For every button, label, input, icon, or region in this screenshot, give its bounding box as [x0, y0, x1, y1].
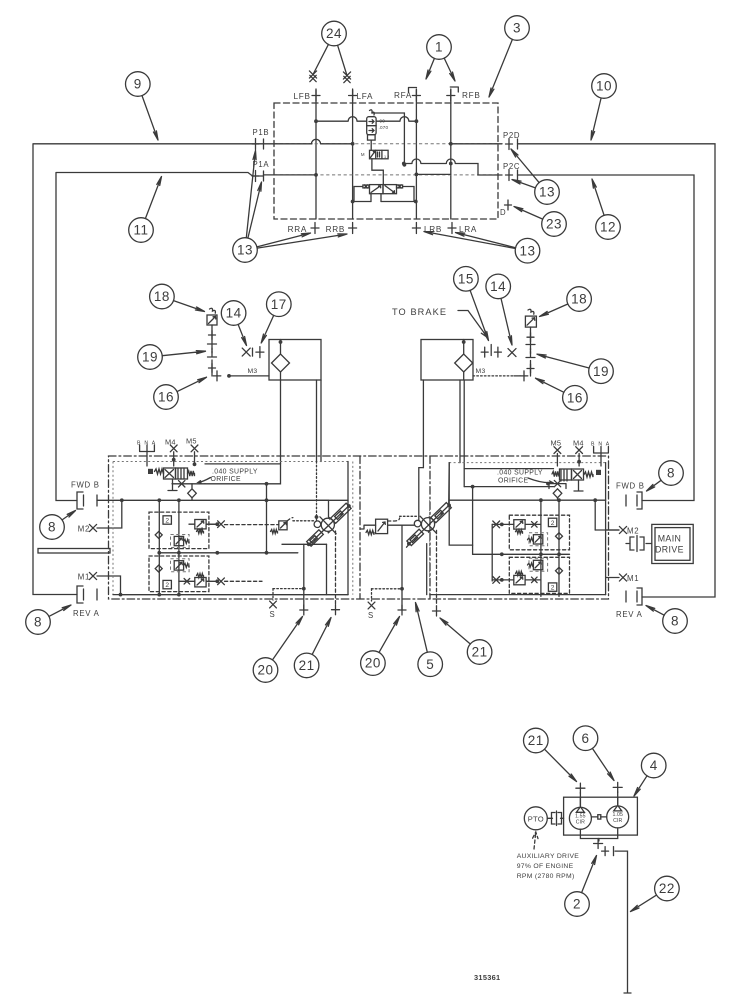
manifold section line LF [315, 89, 317, 219]
left mid valve lower [174, 561, 183, 570]
main drive coupling [626, 543, 652, 545]
left REV A port [77, 586, 83, 603]
left box dotted right edge [352, 462, 354, 595]
callout balloon 17 [267, 292, 292, 317]
manifold section line RFA [415, 89, 417, 219]
leader 9 [142, 96, 158, 140]
svg-text:19: 19 [142, 350, 158, 365]
wire PV1 to shift valve [372, 159, 383, 185]
left sub box lower (dashed) [149, 556, 209, 592]
right pump inner box [449, 463, 472, 545]
leader 13R bot b [456, 233, 516, 248]
svg-text:P1B: P1B [253, 128, 270, 137]
callout balloon 9 [126, 72, 151, 97]
svg-text:315361: 315361 [474, 973, 500, 982]
leader 1b [444, 58, 455, 81]
svg-text:18: 18 [154, 289, 170, 304]
right FWD B port [637, 492, 642, 509]
svg-text:RFA: RFA [394, 91, 412, 100]
right gauge stem [530, 327, 532, 344]
right pump SW arm stub [407, 543, 411, 547]
leader 13R top a [511, 149, 539, 183]
manifold section line LFA [352, 89, 354, 219]
wire P1B to left REV [33, 144, 264, 595]
svg-text:ORIFICE: ORIFICE [498, 477, 528, 484]
relief valve drain box [368, 135, 376, 140]
wire P2C to right FWD [518, 175, 695, 501]
right charge valve assembly [552, 471, 559, 476]
port LRA [448, 223, 456, 234]
svg-text:REV A: REV A [73, 609, 100, 618]
right filter wires down [459, 380, 461, 463]
right S suction line [372, 588, 403, 590]
aux pump link [591, 816, 606, 818]
callout balloon 13 [515, 238, 540, 263]
callout balloon 4 [641, 753, 666, 778]
wire P2D to right REV [518, 144, 716, 597]
svg-text:10: 10 [596, 79, 612, 94]
svg-text:2: 2 [551, 520, 555, 527]
right supply orifice tap [548, 484, 566, 489]
pilot valve PV1 (3 position) [370, 150, 389, 159]
leader 4 aux [634, 776, 647, 796]
leader 16L [177, 377, 206, 391]
svg-text:11: 11 [133, 223, 148, 238]
leader 18R [540, 304, 568, 317]
right relief lower [514, 575, 525, 584]
leader 5 [416, 603, 428, 653]
svg-text:FWD B: FWD B [71, 481, 100, 490]
housing divider right [429, 456, 431, 599]
callout balloon 15 [454, 267, 479, 292]
svg-text:6: 6 [581, 731, 589, 746]
leader 24b [338, 45, 347, 75]
left sub box upper (dashed) [149, 512, 209, 549]
svg-text:TO BRAKE: TO BRAKE [392, 307, 447, 317]
svg-text:9: 9 [134, 77, 142, 92]
leader 8 REV left [49, 605, 71, 616]
right pump pilot link [388, 524, 414, 526]
control manifold outline (dashed) [274, 103, 498, 219]
callout balloon 22 [655, 876, 680, 901]
svg-text:FWD B: FWD B [616, 482, 645, 491]
svg-text:22: 22 [659, 881, 675, 896]
aux pump drain U [580, 828, 617, 839]
leader 22 aux [631, 895, 657, 911]
svg-text:24: 24 [326, 26, 342, 41]
svg-text:2: 2 [165, 582, 169, 589]
svg-text:97% OF ENGINE: 97% OF ENGINE [517, 863, 574, 870]
svg-text:RRB: RRB [326, 225, 345, 234]
left bottom rail [121, 594, 349, 596]
transmission housing (dash-dot) [109, 456, 609, 599]
left check valve upper [155, 531, 162, 538]
left filter box [269, 340, 321, 381]
callout balloon 14 [486, 274, 511, 299]
callout balloon 18 [567, 287, 592, 312]
svg-text:.040 SUPPLY: .040 SUPPLY [497, 470, 543, 477]
leader 12 [592, 179, 604, 215]
svg-text:90: 90 [380, 119, 386, 124]
right charge valve drain [574, 480, 583, 491]
leader 8 REV right [646, 606, 664, 616]
svg-text:19: 19 [593, 364, 609, 379]
callout balloon 19 [589, 359, 614, 384]
housing divider left [359, 456, 361, 599]
left pump to port lines [303, 544, 305, 610]
svg-text:1 2: 1 2 [384, 155, 389, 159]
left filter element [272, 354, 290, 372]
left test x (balloon 14 target) [242, 348, 250, 356]
left test cross (balloon 17 target) [256, 347, 264, 358]
leader 10 [591, 98, 601, 140]
right label 2 lower [548, 583, 556, 591]
right sub box upper (dashed) [509, 515, 569, 550]
svg-text:M5: M5 [186, 437, 197, 446]
callout balloon 21 [467, 640, 492, 665]
svg-text:2: 2 [551, 585, 555, 592]
right lower stem cross [530, 361, 532, 377]
wire internal right y=163.5 [404, 159, 502, 175]
shift valve left tab [363, 185, 369, 188]
left M3 port cross [213, 371, 221, 381]
left bottom port crosses [300, 605, 308, 615]
leader 21L [312, 618, 331, 655]
aux top port crosses [576, 783, 585, 793]
right M1 port [619, 574, 626, 581]
left gauge stem [211, 325, 213, 344]
svg-text:LFA: LFA [357, 92, 374, 101]
svg-text:16: 16 [158, 390, 174, 405]
callout balloon 13 [233, 238, 258, 263]
svg-text:P1A: P1A [253, 160, 270, 169]
callout balloon 20 [253, 658, 278, 683]
right check valve lower [556, 567, 563, 574]
left lower stem cross [211, 360, 213, 376]
left supply rail [97, 499, 348, 501]
svg-text:RPM (2780 RPM): RPM (2780 RPM) [517, 873, 575, 880]
svg-text:M1: M1 [627, 574, 639, 583]
right check valve upper [556, 533, 563, 540]
callout balloon 23 [542, 212, 567, 237]
svg-text:13: 13 [539, 185, 555, 200]
svg-text:P2D: P2D [503, 131, 520, 140]
label 2 upper [163, 516, 171, 524]
svg-text:21: 21 [299, 658, 315, 673]
callout balloon 21 [294, 653, 319, 678]
leader 20L [273, 617, 303, 660]
callout balloon 5 [418, 652, 443, 677]
right M2 port [619, 526, 626, 533]
left relief upper cap [215, 522, 219, 526]
svg-text:M2: M2 [627, 527, 639, 536]
left drive shaft bar [38, 549, 110, 554]
svg-text:15: 15 [458, 271, 474, 286]
right pump to port lines [401, 525, 403, 610]
callout balloon 11 [129, 218, 154, 243]
left filter M3 line [229, 375, 269, 377]
left quick coupler [208, 344, 217, 357]
callout balloon 18 [150, 284, 175, 309]
right sub box lower (dashed) [509, 557, 569, 593]
right mid valve lower [533, 560, 542, 569]
wire internal supply y=121 [316, 117, 416, 122]
brake port cluster [481, 347, 488, 357]
svg-text:M: M [361, 152, 365, 157]
relief valve bypass loop [372, 113, 405, 165]
leader 18L [174, 301, 205, 312]
callout balloon 13 [535, 180, 560, 205]
manifold dashed level P1B [274, 143, 498, 145]
right rail risers [540, 500, 542, 596]
shift valve SV1 (two section) [370, 185, 384, 194]
callout balloon 8 [663, 609, 688, 634]
svg-text:21: 21 [472, 645, 488, 660]
MAIN DRIVE box [652, 524, 693, 563]
svg-text:21: 21 [528, 733, 544, 748]
leader 13L a [246, 151, 256, 238]
svg-text:REV A: REV A [616, 610, 643, 619]
leader 15 [470, 290, 488, 340]
leader 21 aux [545, 749, 577, 781]
right bottom port crosses [398, 605, 406, 615]
leader 6 aux [592, 748, 614, 780]
svg-text:2: 2 [165, 518, 169, 525]
svg-text:M4: M4 [573, 439, 584, 448]
leader 17 [261, 315, 274, 343]
leader 11 [145, 177, 161, 219]
left pump rail branch [317, 500, 329, 517]
left M1 port [89, 572, 96, 579]
left rail risers [158, 500, 160, 594]
aux pump box [564, 797, 638, 835]
callout balloon 24 [322, 21, 347, 46]
leader 19R [537, 354, 589, 368]
right M3 port cross [520, 371, 528, 381]
left S suction line [273, 588, 304, 590]
callout balloon 1 [427, 35, 452, 60]
shift valve right tab [397, 185, 403, 188]
svg-text:M3: M3 [476, 368, 486, 375]
left orifice diamond [188, 484, 197, 501]
wire P2D internal [451, 143, 502, 145]
port LFA [349, 90, 357, 101]
leader 13R top b [512, 180, 535, 188]
left relief lower [195, 578, 206, 587]
aux note arrow to PTO [533, 832, 538, 849]
right filter M3 line [473, 375, 514, 377]
right pump supply drop [464, 487, 472, 555]
PTO coupling [547, 817, 563, 819]
leader 2 aux [582, 856, 597, 893]
right filter element [455, 354, 473, 372]
left check valve lower [155, 565, 162, 572]
port D [505, 200, 512, 210]
leader 13L c [257, 233, 311, 247]
middle relief valve [376, 519, 388, 533]
svg-text:8: 8 [667, 466, 675, 481]
aux outlet [594, 839, 603, 849]
svg-text:20: 20 [257, 663, 273, 678]
svg-text:M3: M3 [247, 368, 257, 375]
svg-text:20: 20 [365, 656, 381, 671]
left hydrostatic pump [307, 503, 351, 546]
svg-text:M2: M2 [78, 525, 90, 534]
callout balloon 6 [573, 726, 598, 751]
leader 3 [489, 39, 512, 97]
port RRA [311, 223, 319, 234]
svg-text:13: 13 [519, 243, 535, 258]
right quick coupler [526, 345, 535, 358]
right mid rail [473, 553, 570, 555]
port RFB [447, 90, 455, 101]
svg-text:ORIFICE: ORIFICE [211, 476, 241, 483]
callout balloon 19 [138, 345, 163, 370]
left charge valve drain [168, 479, 177, 491]
shift valve loop [353, 187, 416, 202]
left mid valve upper [174, 536, 183, 545]
leader 8 FWD right [647, 480, 662, 491]
PTO circle [524, 807, 547, 830]
callout balloon 8 [26, 610, 51, 635]
callout balloon 8 [40, 515, 65, 540]
label 2 lower [163, 580, 171, 588]
svg-text:17: 17 [271, 297, 287, 312]
wire RV1 to pilot valve [370, 140, 372, 150]
wire P1A to left FWD [56, 173, 264, 501]
leader 13L d [257, 234, 347, 248]
left pump inner box [112, 462, 114, 595]
wire P1B internal [264, 139, 353, 144]
right supply rail [449, 499, 605, 501]
left pump relief [279, 521, 287, 530]
port RRB [349, 223, 357, 234]
right test x (balloon 14 target) [508, 349, 516, 357]
right pump feed link [448, 463, 451, 506]
relief valve RV1 [367, 117, 376, 135]
svg-text:AUXILIARY DRIVE: AUXILIARY DRIVE [517, 853, 580, 860]
wire P1A internal [264, 174, 317, 176]
left M2 port [89, 524, 96, 531]
right .040 supply orifice note box [464, 469, 553, 487]
svg-text:16: 16 [567, 390, 583, 405]
svg-text:5: 5 [426, 657, 434, 672]
port P2D [506, 139, 513, 150]
svg-text:DRIVE: DRIVE [655, 545, 684, 555]
left mid rail [159, 552, 297, 554]
leader 13L b [248, 182, 262, 238]
svg-text:8: 8 [34, 615, 42, 630]
svg-text:S: S [368, 611, 374, 620]
port P1A [252, 171, 259, 182]
callout balloon 3 [505, 16, 530, 41]
callout balloon 16 [154, 385, 179, 410]
svg-text:D: D [500, 208, 506, 217]
svg-text:M1: M1 [78, 573, 90, 582]
svg-text:18: 18 [571, 292, 587, 307]
right M2 riser link [595, 529, 619, 531]
leader 23 [514, 207, 543, 220]
svg-text:.070: .070 [379, 125, 389, 130]
manifold section line RFB [450, 89, 452, 219]
leader 13R bot a [424, 232, 515, 249]
left charge valve assembly [148, 469, 153, 474]
left supply orifice tap [172, 483, 205, 485]
svg-text:CIR: CIR [576, 820, 585, 826]
svg-text:14: 14 [490, 279, 506, 294]
svg-text:PTO: PTO [528, 815, 544, 824]
left filter wires down [280, 380, 282, 464]
manifold dashed level P1A [274, 174, 498, 176]
right mid valve upper [533, 535, 542, 544]
right REV A port [637, 588, 642, 605]
aux pump 1.55 [569, 807, 591, 829]
leader 16R [536, 378, 564, 392]
svg-text:LFB: LFB [294, 92, 311, 101]
port RFA [412, 90, 420, 101]
aux pump 1.05 [607, 806, 629, 828]
leader 19L [162, 351, 205, 356]
callout balloon 20 [361, 651, 386, 676]
port P2C [506, 170, 513, 181]
target x for balloon 24 left [310, 75, 316, 81]
svg-text:P2C: P2C [503, 162, 520, 171]
leader 8 FWD left [62, 511, 75, 520]
left gauge valve (balloon 18) [207, 315, 217, 325]
leader 14L [238, 324, 246, 345]
right drain dashed to port [436, 530, 438, 606]
svg-text:RRA: RRA [288, 225, 307, 234]
port LFB [312, 90, 320, 101]
right gauge valve (balloon 18) [525, 316, 536, 327]
leader 24a [313, 44, 328, 74]
svg-text:3: 3 [513, 21, 521, 36]
svg-text:12: 12 [600, 220, 616, 235]
svg-text:13: 13 [237, 243, 253, 258]
svg-text:1: 1 [435, 40, 443, 55]
left drain dashed to port [335, 531, 337, 604]
right orifice diamond [553, 489, 562, 498]
svg-text:23: 23 [546, 217, 562, 232]
left pump bottom rail [282, 543, 327, 545]
callout balloon 21 [524, 728, 549, 753]
svg-text:8: 8 [671, 614, 679, 629]
leader 1a [426, 58, 434, 79]
right filter box [421, 340, 473, 381]
callout balloon 12 [596, 215, 621, 240]
svg-text:MAIN: MAIN [658, 534, 682, 544]
wire stub y=174.4 right [416, 173, 450, 175]
svg-text:CIR: CIR [613, 818, 622, 824]
target x for balloon 24 right [344, 76, 350, 82]
left pump feed line [316, 462, 318, 522]
callout balloon 16 [563, 386, 588, 411]
port P1B [252, 139, 259, 150]
right hydrostatic pump [407, 503, 451, 546]
svg-text:RFB: RFB [462, 91, 480, 100]
callout balloon 2 [565, 892, 590, 917]
callout balloon 14 [221, 301, 246, 326]
.040 supply orifice note box [205, 464, 281, 484]
left FWD B port [77, 492, 83, 509]
left pump supply drop [266, 484, 268, 553]
leader 21R [440, 618, 470, 644]
svg-text:4: 4 [650, 758, 658, 773]
leader 14R [501, 298, 512, 345]
svg-text:M5: M5 [551, 439, 562, 448]
svg-text:2: 2 [573, 897, 581, 912]
right relief upper cap [500, 523, 504, 527]
